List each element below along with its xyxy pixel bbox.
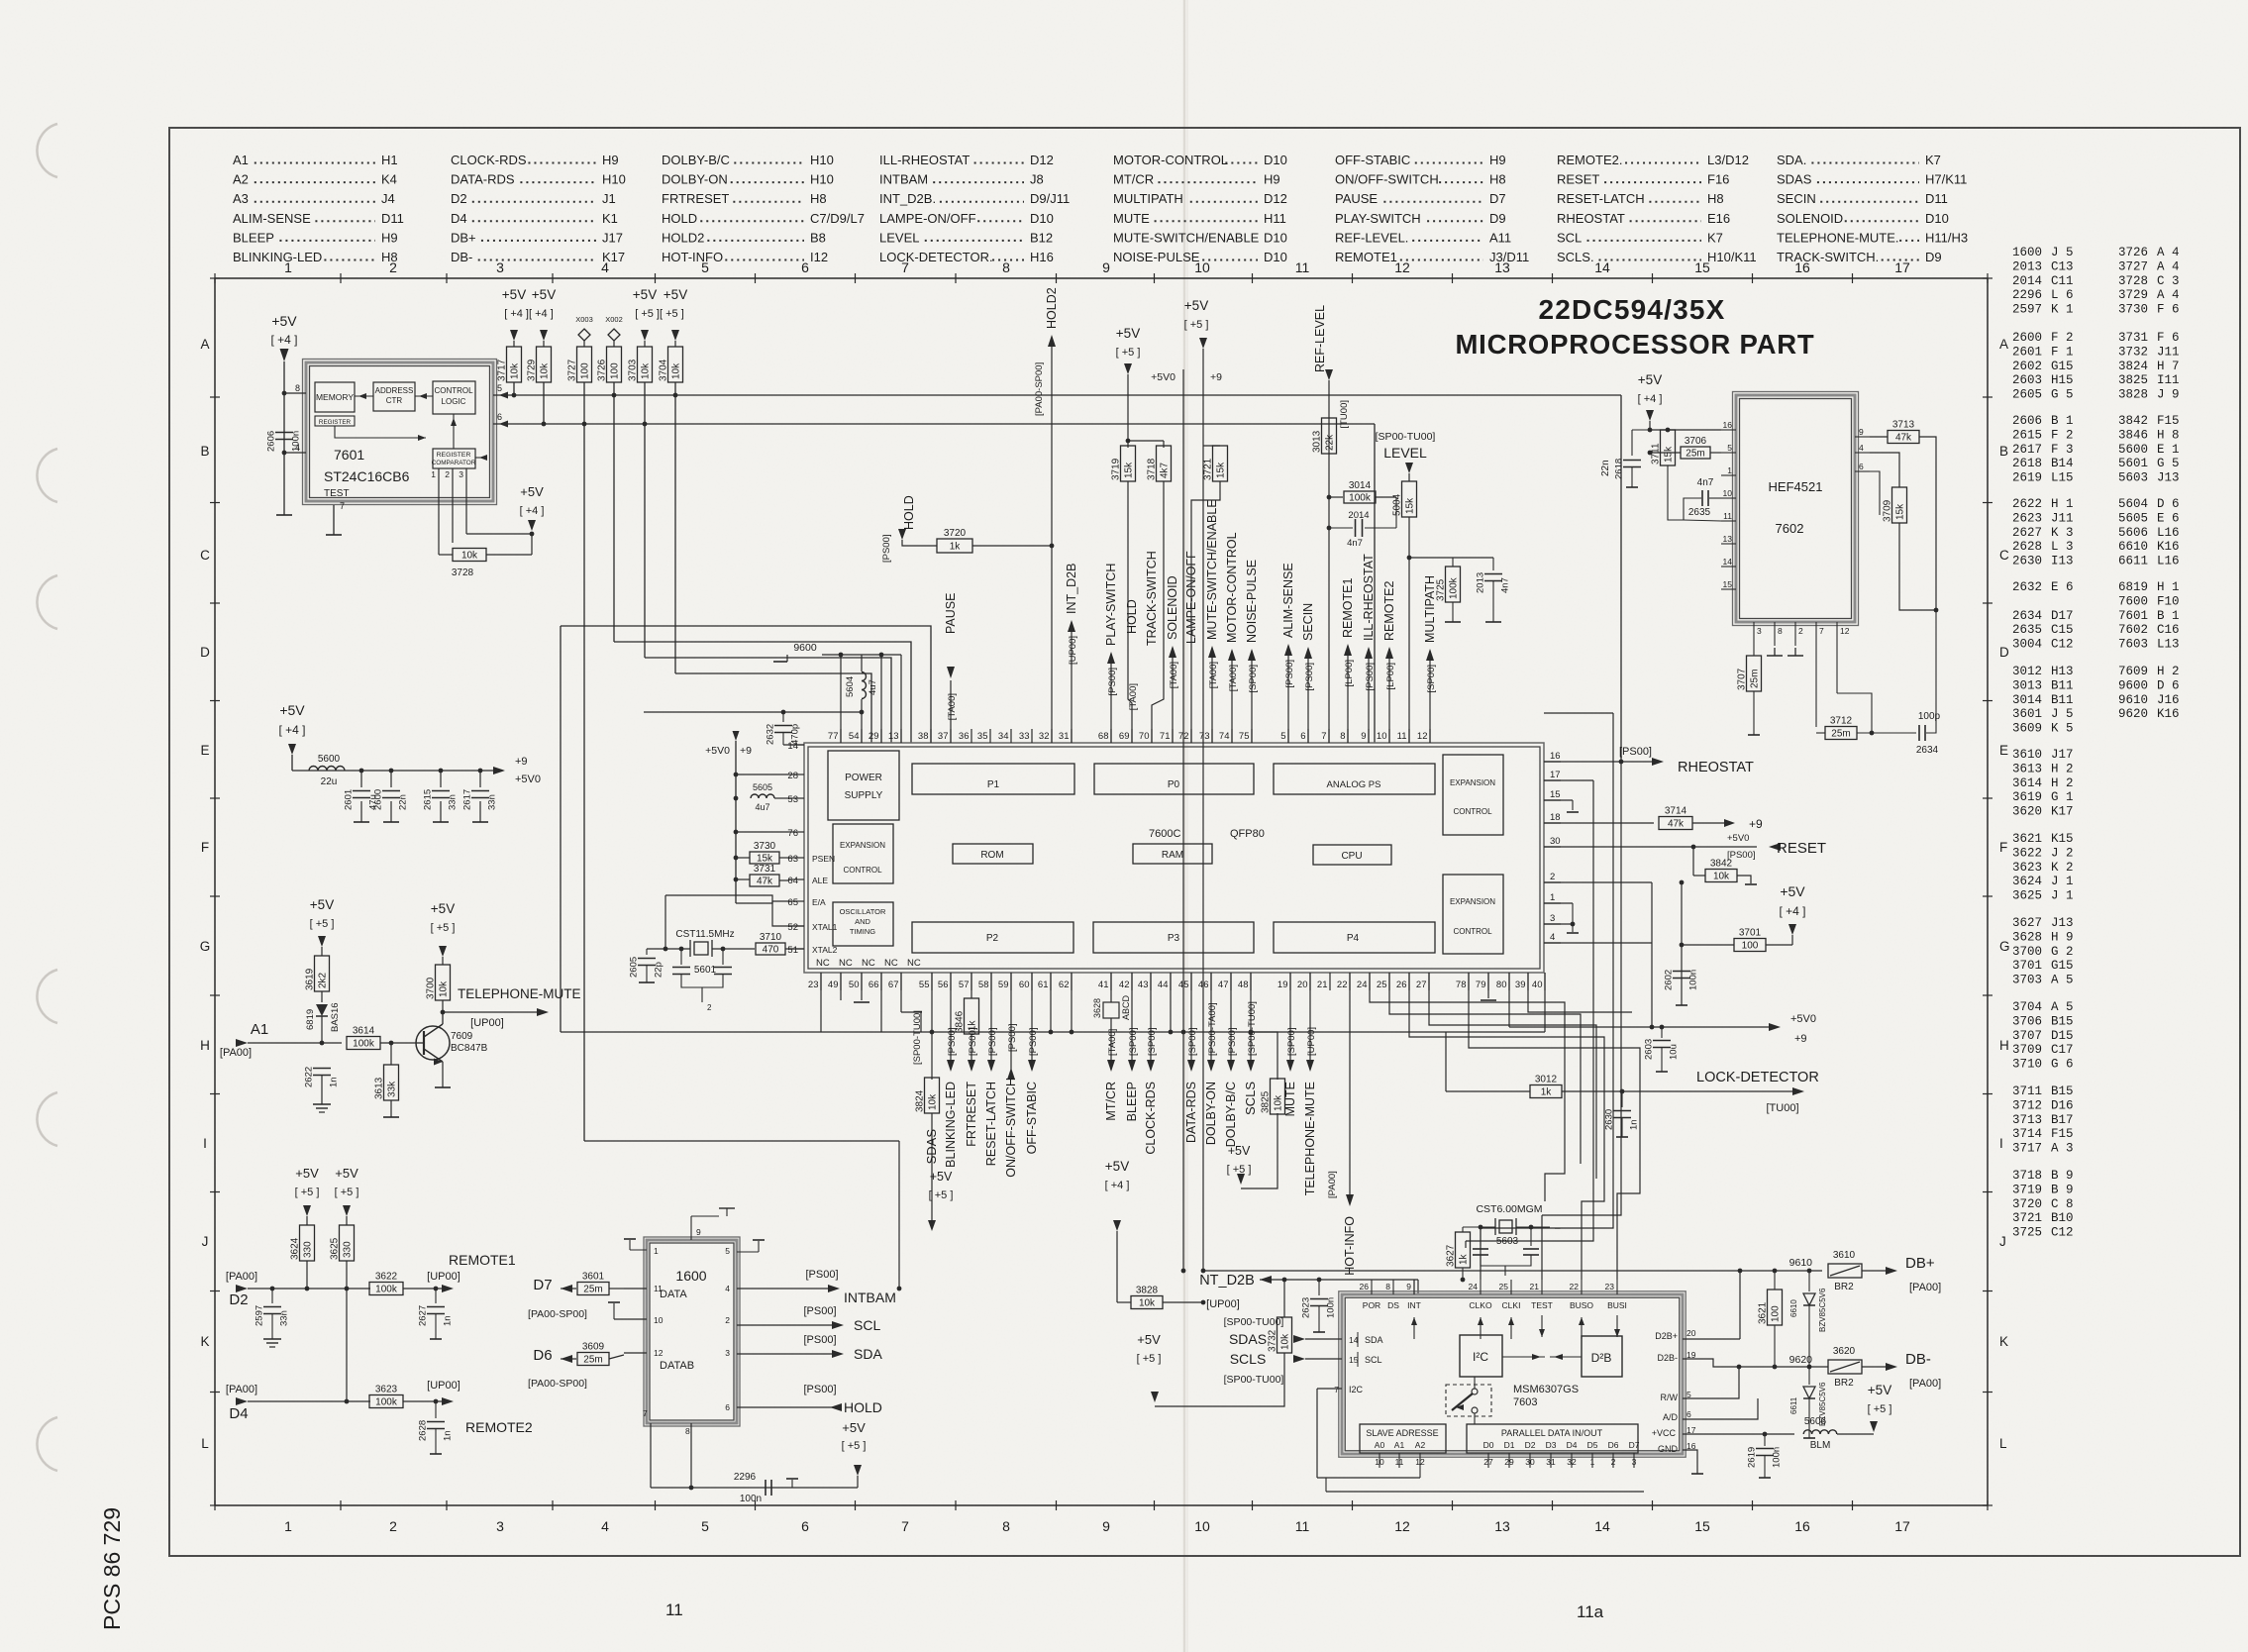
svg-text:+5V: +5V [633, 287, 657, 302]
svg-text:+5V: +5V [1638, 372, 1662, 387]
svg-text:I2C: I2C [1349, 1385, 1364, 1394]
svg-text:REMOTE1: REMOTE1 [1335, 250, 1397, 264]
svg-text:D5: D5 [1587, 1440, 1598, 1450]
svg-text:3620: 3620 [2012, 805, 2042, 819]
svg-text:ILL-RHEOSTAT: ILL-RHEOSTAT [1362, 554, 1376, 641]
svg-text:+5V: +5V [532, 287, 556, 302]
svg-text:+5V: +5V [1780, 883, 1805, 899]
svg-text:3713: 3713 [2012, 1113, 2042, 1127]
svg-text:J13: J13 [2157, 471, 2180, 485]
svg-text:[ +5 ]: [ +5 ] [1116, 347, 1141, 359]
svg-text:[PA00]: [PA00] [1909, 1378, 1941, 1390]
svg-text:B15: B15 [2051, 1014, 2074, 1028]
svg-text:10k: 10k [1139, 1298, 1156, 1309]
svg-text:17: 17 [1550, 770, 1561, 780]
svg-text:HOLD: HOLD [1125, 599, 1139, 634]
svg-text:NC: NC [816, 958, 830, 969]
svg-text:2623: 2623 [1301, 1297, 1312, 1318]
svg-text:ST24C16CB6: ST24C16CB6 [324, 468, 410, 484]
svg-text:E 6: E 6 [2157, 511, 2180, 525]
svg-text:3706: 3706 [1685, 436, 1707, 447]
svg-text:2296: 2296 [2012, 288, 2042, 302]
svg-text:ROM: ROM [980, 850, 1003, 861]
svg-text:CONTROL: CONTROL [1453, 927, 1492, 936]
svg-text:DATA-RDS: DATA-RDS [1184, 1082, 1198, 1143]
svg-text:+5V0: +5V0 [1151, 371, 1175, 383]
svg-text:SDAS: SDAS [924, 1129, 939, 1165]
svg-text:7: 7 [643, 1408, 648, 1418]
svg-text:BLINKING-LED: BLINKING-LED [944, 1082, 958, 1168]
svg-text:+5V: +5V [1868, 1383, 1891, 1397]
svg-text:REGISTER: REGISTER [319, 419, 352, 426]
svg-text:9620: 9620 [2118, 707, 2148, 721]
svg-text:100k: 100k [375, 1285, 398, 1295]
svg-text:25: 25 [1499, 1282, 1509, 1291]
svg-text:51: 51 [787, 945, 798, 956]
svg-text:D 6: D 6 [2157, 497, 2180, 511]
svg-text:3728: 3728 [2118, 274, 2148, 288]
svg-text:3719: 3719 [1111, 458, 1122, 480]
svg-text:2619: 2619 [2012, 471, 2042, 485]
svg-text:[ +5 ]: [ +5 ] [1227, 1164, 1252, 1176]
svg-text:9620: 9620 [1789, 1354, 1813, 1366]
svg-text:EXPANSION: EXPANSION [1450, 897, 1495, 906]
svg-text:2635: 2635 [2012, 623, 2042, 637]
svg-text:2: 2 [1550, 872, 1555, 882]
svg-text:62: 62 [1059, 980, 1070, 990]
svg-text:G15: G15 [2051, 959, 2074, 973]
svg-text:+5V: +5V [842, 1420, 866, 1435]
svg-text:3711: 3711 [2012, 1084, 2042, 1098]
svg-text:REMOTE2.: REMOTE2. [1557, 153, 1622, 167]
svg-text:I: I [1999, 1136, 2003, 1151]
svg-text:D6: D6 [533, 1347, 552, 1364]
svg-text:H11: H11 [1264, 211, 1286, 226]
svg-text:REMOTE1: REMOTE1 [1341, 578, 1355, 638]
svg-text:+9: +9 [1749, 817, 1763, 831]
svg-text:3622: 3622 [2012, 846, 2042, 860]
svg-text:K 5: K 5 [2051, 722, 2074, 736]
svg-text:BC847B: BC847B [451, 1043, 488, 1054]
svg-text:65: 65 [787, 897, 798, 908]
svg-text:8: 8 [685, 1426, 690, 1436]
svg-text:D2: D2 [1525, 1440, 1536, 1450]
svg-text:DB-: DB- [451, 250, 472, 264]
svg-text:7: 7 [1819, 626, 1824, 636]
svg-text:1k: 1k [1541, 1087, 1553, 1098]
svg-text:+5V: +5V [335, 1166, 358, 1181]
svg-text:A1: A1 [1394, 1440, 1405, 1450]
svg-text:+5V0: +5V0 [705, 745, 730, 757]
svg-text:XTAL2: XTAL2 [812, 945, 838, 955]
svg-text:RHEOSTAT: RHEOSTAT [1557, 211, 1625, 226]
svg-text:C12: C12 [2051, 638, 2074, 652]
svg-text:42: 42 [1119, 980, 1130, 990]
svg-text:D9/J11: D9/J11 [1030, 191, 1070, 206]
svg-text:H7/K11: H7/K11 [1925, 172, 1967, 187]
svg-text:B 9: B 9 [2051, 1183, 2074, 1196]
svg-text:8: 8 [1778, 626, 1783, 636]
svg-text:CLOCK-RDS: CLOCK-RDS [1144, 1082, 1158, 1155]
svg-text:[ +4 ]: [ +4 ] [1638, 393, 1663, 405]
svg-text:A 4: A 4 [2157, 259, 2180, 273]
svg-text:3717: 3717 [497, 359, 508, 381]
svg-text:6: 6 [801, 259, 809, 275]
svg-text:25m: 25m [1750, 670, 1761, 688]
svg-text:2623: 2623 [2012, 511, 2042, 525]
svg-text:[PS00]: [PS00] [881, 534, 892, 563]
svg-text:[ +4 ]: [ +4 ] [278, 723, 305, 737]
svg-text:15: 15 [1694, 1518, 1710, 1534]
svg-text:3718: 3718 [2012, 1169, 2042, 1183]
svg-text:H10/K11: H10/K11 [1707, 250, 1757, 264]
svg-text:NOISE-PULSE: NOISE-PULSE [1245, 560, 1259, 643]
svg-text:[UP00]: [UP00] [1306, 1027, 1317, 1056]
svg-text:+5V: +5V [1105, 1159, 1129, 1174]
svg-text:3828: 3828 [2118, 388, 2148, 402]
svg-text:[PS00-TA00]: [PS00-TA00] [1207, 1002, 1218, 1056]
svg-text:H8: H8 [810, 191, 827, 206]
svg-text:B 1: B 1 [2157, 609, 2180, 623]
svg-text:3012: 3012 [1535, 1075, 1558, 1085]
svg-text:1600: 1600 [2012, 246, 2042, 259]
svg-text:32: 32 [1567, 1457, 1577, 1467]
svg-text:75: 75 [1239, 731, 1250, 742]
svg-text:3624: 3624 [2012, 875, 2042, 888]
svg-text:[PS00]: [PS00] [1304, 663, 1315, 691]
svg-text:3728: 3728 [452, 568, 474, 578]
svg-text:3622: 3622 [375, 1272, 398, 1283]
svg-text:E: E [200, 743, 209, 758]
svg-text:14: 14 [1723, 557, 1733, 567]
svg-text:MUTE: MUTE [1113, 211, 1150, 226]
svg-text:3703: 3703 [628, 359, 639, 381]
svg-text:38: 38 [918, 731, 929, 742]
svg-text:[TA00]: [TA00] [1128, 683, 1139, 710]
svg-text:E 6: E 6 [2051, 580, 2074, 594]
svg-text:5: 5 [1727, 443, 1732, 453]
svg-text:1: 1 [284, 259, 292, 275]
svg-text:100n: 100n [1772, 1447, 1783, 1468]
svg-text:2622: 2622 [2012, 497, 2042, 511]
svg-text:D3: D3 [1546, 1440, 1557, 1450]
svg-text:7: 7 [901, 259, 909, 275]
svg-text:COMPARATOR: COMPARATOR [432, 460, 476, 466]
svg-text:12: 12 [1394, 259, 1410, 275]
svg-text:F 1: F 1 [2051, 345, 2074, 359]
svg-text:C: C [200, 548, 210, 563]
svg-text:3: 3 [1757, 626, 1762, 636]
svg-text:+5V: +5V [664, 287, 687, 302]
svg-text:5: 5 [725, 1246, 730, 1256]
svg-text:10k: 10k [1274, 1094, 1284, 1111]
svg-text:MEMORY: MEMORY [316, 392, 354, 402]
svg-text:L: L [1999, 1436, 2007, 1451]
svg-text:BR2: BR2 [1834, 1378, 1854, 1389]
svg-text:C13: C13 [2051, 259, 2074, 273]
svg-text:15k: 15k [1664, 446, 1675, 463]
svg-text:RESET-LATCH: RESET-LATCH [1557, 191, 1645, 206]
svg-text:[ +4 ]: [ +4 ] [1105, 1180, 1130, 1191]
svg-text:K: K [1999, 1334, 2008, 1349]
svg-text:TEST: TEST [324, 488, 350, 499]
svg-text:1: 1 [431, 469, 436, 479]
svg-text:SECIN: SECIN [1777, 191, 1816, 206]
svg-text:3628: 3628 [1092, 998, 1102, 1018]
svg-text:[SP00-TU00]: [SP00-TU00] [1224, 1316, 1284, 1328]
svg-text:RAM: RAM [1162, 850, 1183, 861]
svg-text:DB+: DB+ [1905, 1255, 1935, 1272]
svg-text:REF-LEVEL.: REF-LEVEL. [1335, 230, 1408, 245]
svg-text:22: 22 [1570, 1282, 1580, 1291]
svg-text:D12: D12 [1030, 153, 1054, 167]
svg-text:+5V: +5V [1137, 1332, 1161, 1347]
svg-text:H15: H15 [2051, 373, 2074, 387]
svg-text:J8: J8 [1030, 172, 1044, 187]
svg-text:MT/CR: MT/CR [1104, 1082, 1118, 1121]
svg-text:BUSO: BUSO [1570, 1300, 1593, 1310]
svg-text:R/W: R/W [1661, 1393, 1679, 1402]
svg-text:69: 69 [1119, 731, 1130, 742]
svg-text:L15: L15 [2051, 471, 2074, 485]
svg-text:41: 41 [1098, 980, 1109, 990]
svg-text:[ +4 ]: [ +4 ] [270, 333, 297, 347]
svg-text:5004: 5004 [1392, 493, 1403, 516]
svg-text:2634: 2634 [2012, 609, 2042, 623]
svg-text:3712: 3712 [1830, 716, 1853, 727]
svg-text:K16: K16 [2157, 540, 2180, 554]
svg-text:[UP00]: [UP00] [427, 1271, 460, 1283]
svg-text:44: 44 [1158, 980, 1169, 990]
svg-text:D11: D11 [381, 211, 404, 226]
svg-text:+5V: +5V [520, 484, 544, 499]
svg-text:26: 26 [1396, 980, 1407, 990]
svg-text:[SP00-TU00]: [SP00-TU00] [1247, 1001, 1258, 1056]
svg-text:[PS00]: [PS00] [803, 1334, 836, 1346]
svg-text:67: 67 [888, 980, 899, 990]
svg-text:30: 30 [1550, 836, 1561, 847]
svg-text:7: 7 [1334, 1385, 1339, 1394]
svg-text:H 1: H 1 [2157, 580, 2180, 594]
svg-text:12: 12 [1394, 1518, 1410, 1534]
svg-text:3706: 3706 [2012, 1014, 2042, 1028]
svg-text:A/D: A/D [1663, 1412, 1679, 1422]
svg-text:C16: C16 [2157, 623, 2180, 637]
svg-text:INT: INT [1407, 1300, 1421, 1310]
svg-text:3732: 3732 [1268, 1329, 1278, 1352]
svg-text:DB-: DB- [1905, 1351, 1931, 1368]
svg-text:L: L [201, 1436, 209, 1451]
svg-text:3720: 3720 [944, 528, 967, 539]
svg-text:[PS00]: [PS00] [1365, 663, 1376, 691]
svg-text:3014: 3014 [1349, 480, 1372, 491]
svg-text:D7: D7 [533, 1277, 552, 1293]
svg-text:10k: 10k [671, 362, 682, 379]
svg-text:[ +5 ]: [ +5 ] [295, 1187, 320, 1198]
svg-text:15: 15 [1723, 579, 1733, 589]
svg-text:K 3: K 3 [2051, 526, 2074, 540]
svg-text:[TA00]: [TA00] [947, 693, 958, 720]
svg-text:+5V: +5V [1184, 298, 1208, 313]
svg-text:8: 8 [295, 383, 300, 393]
svg-text:TELEPHONE-MUTE: TELEPHONE-MUTE [458, 986, 581, 1001]
svg-text:1n: 1n [443, 1430, 454, 1441]
svg-text:6611: 6611 [2118, 555, 2148, 568]
svg-text:G: G [200, 939, 211, 954]
svg-text:16: 16 [1794, 259, 1810, 275]
svg-text:P0: P0 [1168, 779, 1180, 790]
svg-text:8: 8 [1002, 1518, 1010, 1534]
svg-text:33n: 33n [487, 794, 498, 810]
svg-text:1n: 1n [443, 1315, 454, 1326]
svg-text:7609: 7609 [451, 1031, 473, 1042]
svg-text:3621: 3621 [1758, 1301, 1769, 1324]
svg-text:L16: L16 [2157, 555, 2180, 568]
svg-text:21: 21 [1317, 980, 1328, 990]
svg-text:16: 16 [1550, 751, 1561, 762]
svg-text:F15: F15 [2157, 414, 2180, 428]
svg-text:[TA00]: [TA00] [1169, 662, 1179, 688]
svg-text:3613: 3613 [2012, 762, 2042, 775]
svg-text:100k: 100k [1449, 576, 1460, 599]
svg-text:9: 9 [696, 1227, 701, 1237]
svg-text:LEVEL: LEVEL [1383, 445, 1427, 461]
svg-text:F15: F15 [2051, 1127, 2074, 1141]
svg-text:NC: NC [839, 958, 853, 969]
svg-text:B11: B11 [2051, 693, 2074, 707]
svg-text:+5V: +5V [1116, 326, 1140, 341]
svg-text:2296: 2296 [734, 1472, 757, 1483]
svg-text:H10: H10 [602, 172, 626, 187]
svg-text:NC: NC [907, 958, 921, 969]
svg-text:2602: 2602 [1664, 970, 1675, 990]
svg-text:[PA00-SP00]: [PA00-SP00] [528, 1378, 587, 1390]
svg-text:–: – [1555, 1223, 1561, 1234]
svg-text:H 7: H 7 [2157, 360, 2180, 373]
svg-text:3610: 3610 [2012, 748, 2042, 762]
svg-text:DATA: DATA [660, 1289, 687, 1300]
svg-text:SECIN: SECIN [1301, 603, 1315, 641]
svg-text:F 6: F 6 [2157, 303, 2180, 317]
svg-text:L 6: L 6 [2051, 288, 2074, 302]
svg-text:[PA00]: [PA00] [1909, 1282, 1941, 1293]
svg-text:H9: H9 [1489, 153, 1506, 167]
svg-text:F: F [1999, 840, 2007, 855]
svg-text:MUTE-SWITCH/ENABLE: MUTE-SWITCH/ENABLE [1113, 230, 1260, 245]
svg-text:C 8: C 8 [2051, 1197, 2074, 1211]
svg-text:ABCD: ABCD [1121, 994, 1131, 1020]
svg-text:10k: 10k [461, 551, 478, 562]
svg-text:6: 6 [497, 412, 502, 422]
svg-text:10k: 10k [1280, 1333, 1291, 1350]
svg-text:63: 63 [787, 854, 798, 865]
svg-text:CLKO: CLKO [1469, 1300, 1492, 1310]
svg-text:ANALOG PS: ANALOG PS [1327, 779, 1381, 790]
svg-text:3: 3 [1550, 913, 1555, 924]
svg-text:2601: 2601 [344, 789, 355, 810]
svg-text:16: 16 [1794, 1518, 1810, 1534]
svg-text:1n: 1n [1629, 1119, 1640, 1130]
svg-text:+5V0: +5V0 [515, 774, 541, 785]
svg-text:53: 53 [787, 794, 798, 805]
svg-text:CONTROL: CONTROL [843, 866, 882, 875]
svg-text:5605: 5605 [2118, 511, 2148, 525]
svg-text:7603: 7603 [1513, 1396, 1537, 1408]
svg-text:HOT-INFO: HOT-INFO [662, 250, 723, 264]
svg-text:D10: D10 [1264, 230, 1287, 245]
svg-text:ADDRESS: ADDRESS [375, 386, 414, 395]
svg-text:4: 4 [601, 1518, 609, 1534]
svg-text:330: 330 [343, 1241, 354, 1258]
svg-text:73: 73 [1199, 731, 1210, 742]
svg-text:39: 39 [1515, 980, 1526, 990]
svg-text:QFP80: QFP80 [1230, 828, 1265, 840]
svg-text:ILL-RHEOSTAT: ILL-RHEOSTAT [879, 153, 970, 167]
svg-text:3727: 3727 [567, 359, 578, 381]
svg-text:12: 12 [1415, 1457, 1425, 1467]
svg-text:L3/D12: L3/D12 [1707, 153, 1749, 167]
svg-text:[SP00-TU00]: [SP00-TU00] [1224, 1374, 1284, 1386]
svg-text:ON/OFF-SWITCH: ON/OFF-SWITCH [1335, 172, 1439, 187]
svg-text:LOCK-DETECTOR: LOCK-DETECTOR [1696, 1070, 1819, 1085]
svg-text:78: 78 [1456, 980, 1467, 990]
svg-text:3720: 3720 [2012, 1197, 2042, 1211]
svg-text:K 2: K 2 [2051, 861, 2074, 875]
svg-text:13: 13 [1494, 1518, 1510, 1534]
svg-text:3717: 3717 [2012, 1142, 2042, 1156]
svg-text:H: H [1999, 1038, 2009, 1053]
svg-text:[TU00]: [TU00] [1339, 400, 1350, 429]
svg-text:22n: 22n [398, 794, 409, 810]
svg-text:LOGIC: LOGIC [442, 397, 466, 406]
svg-text:7: 7 [901, 1518, 909, 1534]
svg-text:25: 25 [1377, 980, 1387, 990]
svg-text:2600: 2600 [2012, 331, 2042, 345]
svg-text:B11: B11 [2051, 678, 2074, 692]
svg-text:25m: 25m [583, 1355, 602, 1366]
svg-text:I: I [203, 1136, 207, 1151]
svg-text:10k: 10k [540, 362, 551, 379]
svg-text:9600: 9600 [2118, 678, 2148, 692]
svg-text:3623: 3623 [2012, 861, 2042, 875]
svg-text:[PA00-SP00]: [PA00-SP00] [1034, 362, 1045, 416]
svg-text:3: 3 [1632, 1457, 1637, 1467]
svg-text:2603: 2603 [2012, 373, 2042, 387]
svg-text:D7: D7 [1629, 1440, 1640, 1450]
svg-text:10: 10 [654, 1315, 664, 1325]
svg-text:D: D [1999, 645, 2009, 660]
svg-text:[UP00]: [UP00] [427, 1380, 460, 1392]
svg-text:3620: 3620 [1833, 1346, 1856, 1357]
svg-text:B: B [200, 444, 209, 459]
svg-text:100k: 100k [353, 1039, 375, 1050]
svg-text:J13: J13 [2051, 916, 2074, 930]
svg-text:H16: H16 [1030, 250, 1054, 264]
svg-text:7609: 7609 [2118, 665, 2148, 678]
svg-text:10k: 10k [510, 362, 521, 379]
svg-text:3707: 3707 [1737, 668, 1748, 690]
svg-text:3613: 3613 [374, 1077, 385, 1099]
svg-text:9600: 9600 [793, 642, 817, 654]
svg-text:14: 14 [1594, 1518, 1610, 1534]
svg-text:A11: A11 [1489, 230, 1511, 245]
svg-text:34: 34 [998, 731, 1009, 742]
svg-text:47k: 47k [1895, 433, 1912, 444]
svg-text:3709: 3709 [1883, 499, 1893, 522]
svg-text:[TU00]: [TU00] [1766, 1102, 1798, 1114]
svg-text:3704: 3704 [659, 359, 669, 381]
svg-text:5604: 5604 [845, 676, 856, 697]
